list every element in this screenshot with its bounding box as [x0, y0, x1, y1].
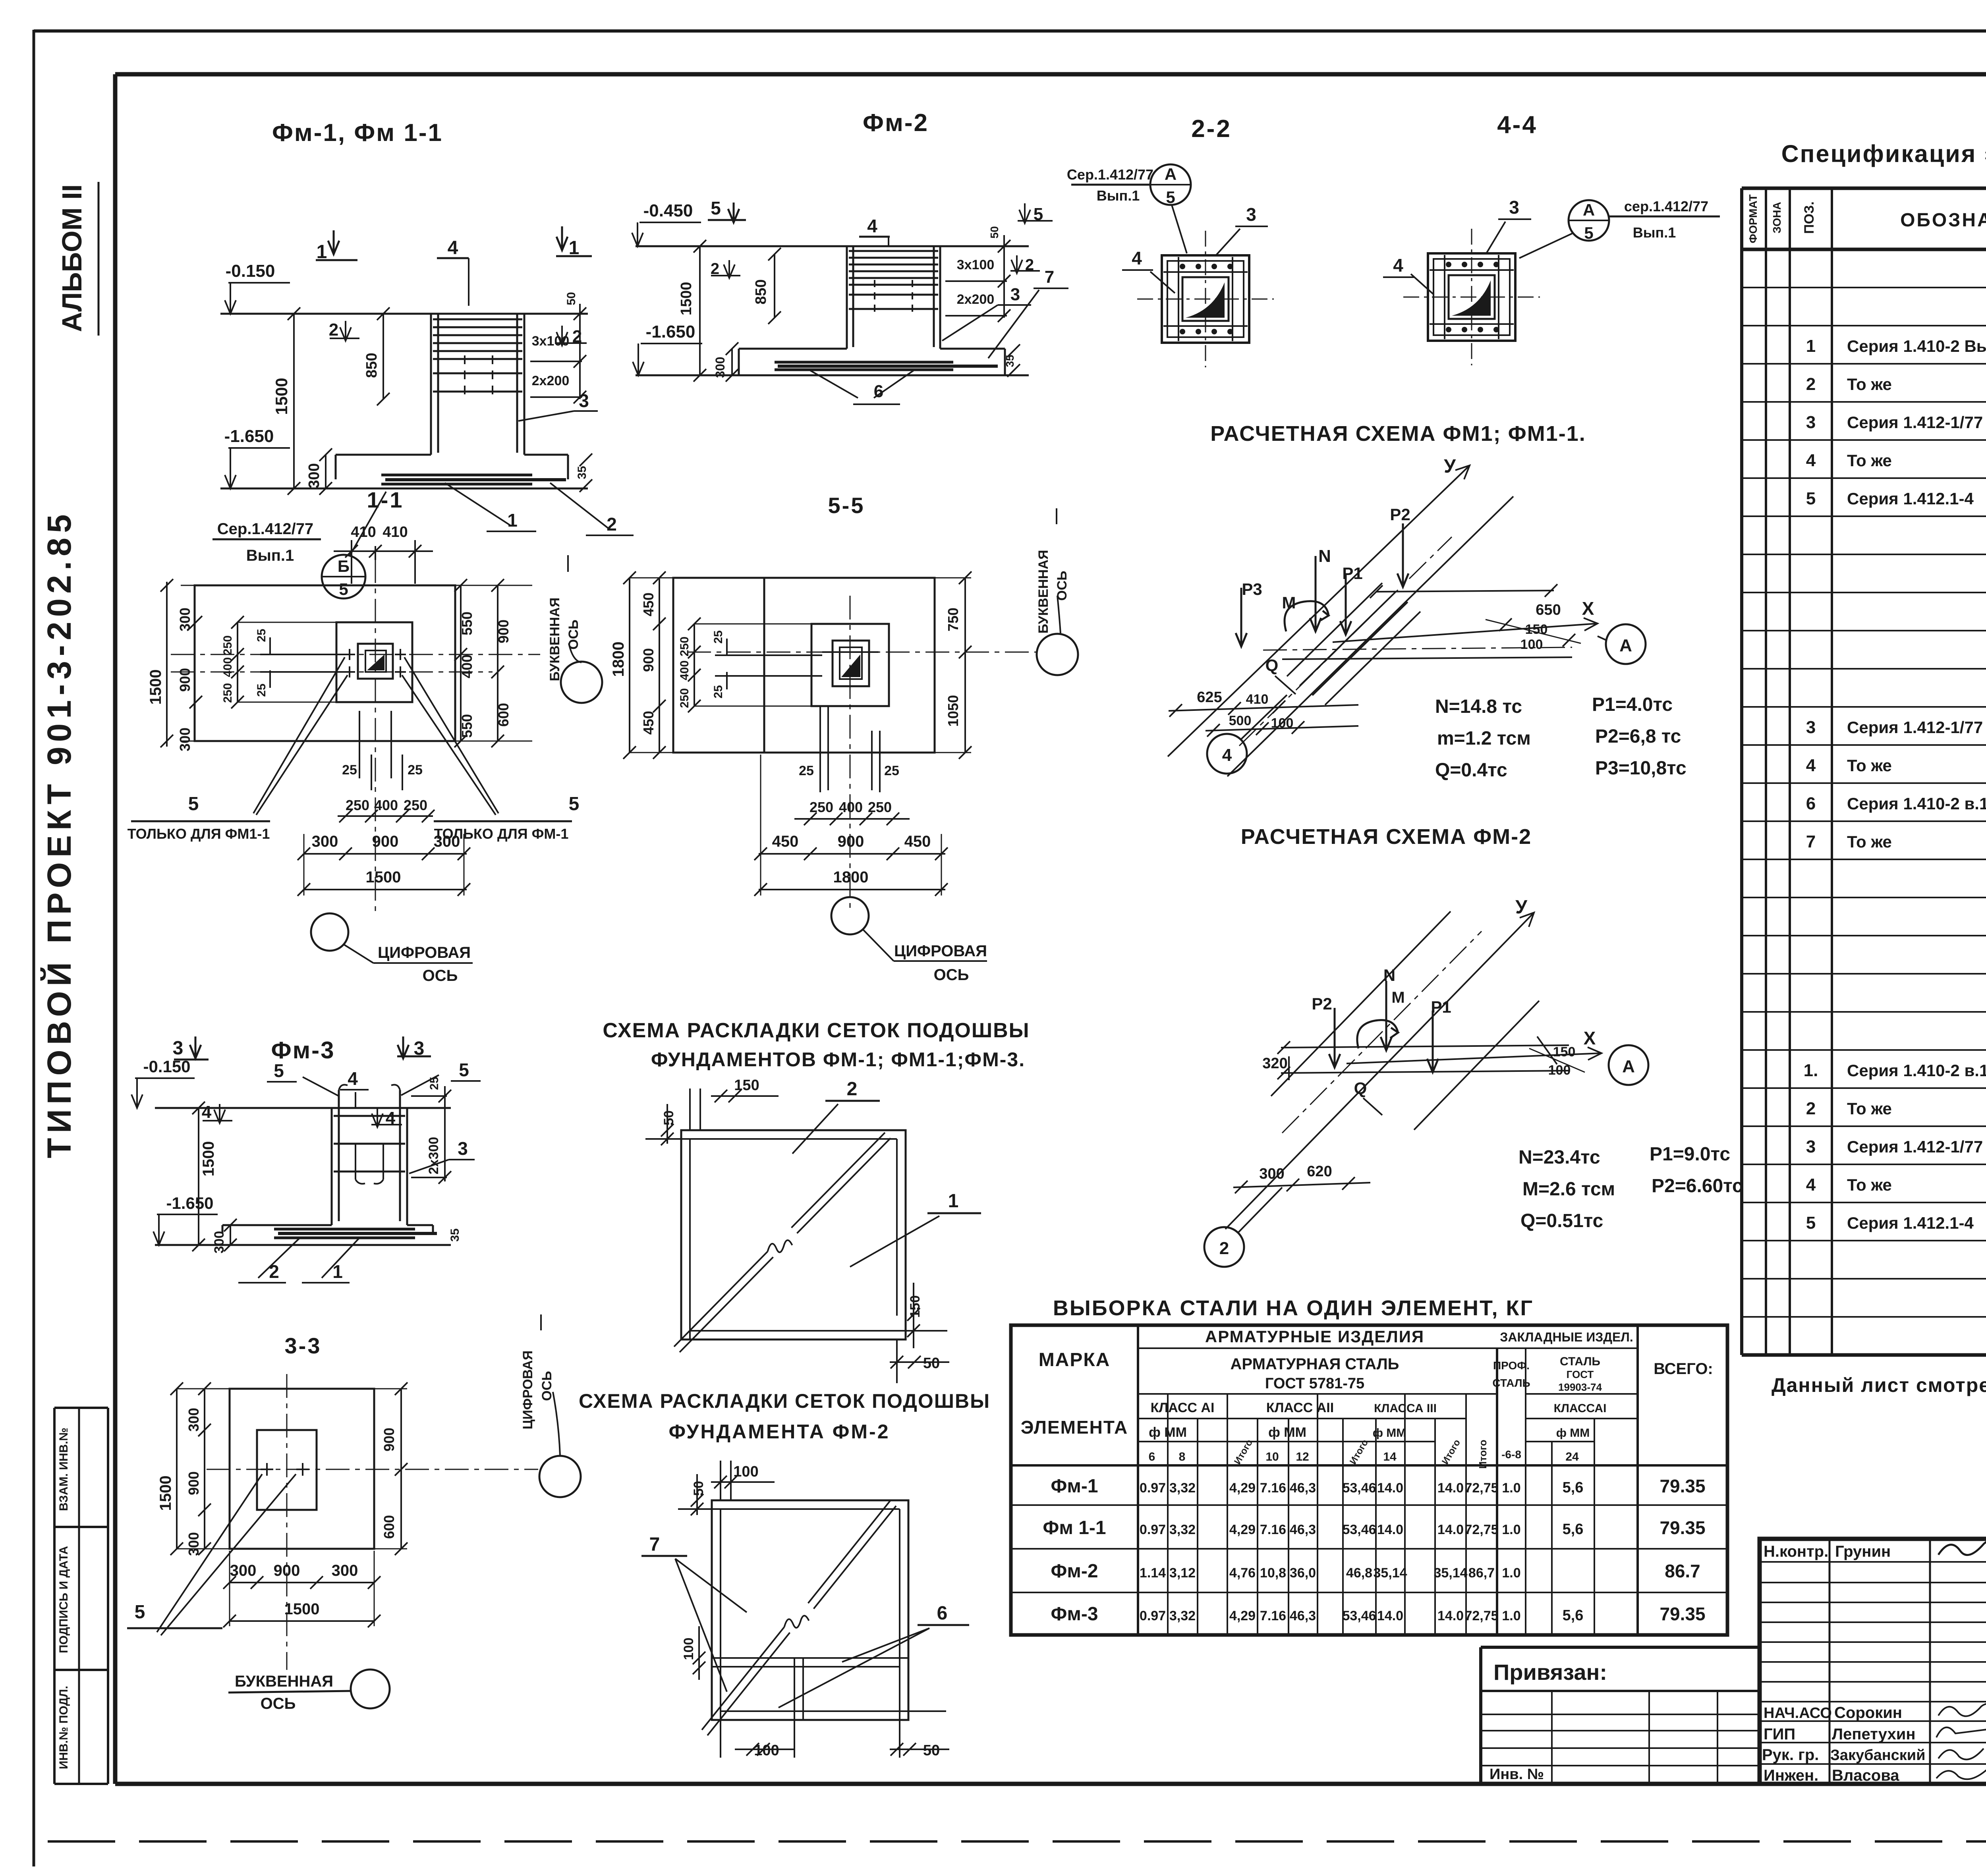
svg-text:Р2=6.60тс: Р2=6.60тс — [1652, 1175, 1743, 1197]
svg-text:0.97: 0.97 — [1140, 1522, 1166, 1537]
svg-text:4: 4 — [1806, 1175, 1816, 1195]
svg-text:14.0: 14.0 — [1437, 1608, 1464, 1623]
square section 2-2 — [1137, 231, 1274, 367]
svg-text:250: 250 — [868, 799, 892, 815]
svg-text:5: 5 — [711, 198, 721, 218]
svg-text:Х: Х — [1582, 598, 1594, 619]
steel table header — [1021, 1327, 1713, 1469]
svg-text:АЛЬБОМ II: АЛЬБОМ II — [56, 184, 87, 332]
svg-text:3,12: 3,12 — [1169, 1565, 1196, 1581]
svg-text:5: 5 — [569, 793, 580, 814]
svg-text:Инжен.: Инжен. — [1764, 1767, 1818, 1784]
svg-text:79.35: 79.35 — [1660, 1517, 1705, 1538]
svg-text:1800: 1800 — [610, 642, 627, 677]
calc2 forces — [1312, 966, 1451, 1115]
svg-text:3: 3 — [1509, 197, 1519, 218]
svg-text:Серия 1.412-1/77 в.3 стр.19: Серия 1.412-1/77 в.3 стр.19 — [1847, 718, 1986, 737]
svg-text:Серия 1.412-1/77 в.3 стр.19: Серия 1.412-1/77 в.3 стр.19 — [1847, 413, 1986, 432]
svg-text:Вып.1: Вып.1 — [246, 547, 294, 564]
svg-text:2: 2 — [1806, 1099, 1816, 1118]
sidebar cells — [54, 1408, 108, 1784]
svg-text:Р2: Р2 — [1390, 505, 1410, 524]
svg-text:19903-74: 19903-74 — [1558, 1381, 1602, 1393]
svg-text:900: 900 — [177, 668, 193, 692]
svg-text:1.0: 1.0 — [1502, 1608, 1520, 1623]
plan 3-3 digit axis — [520, 1314, 581, 1497]
plan 1-1 letter axis — [547, 555, 602, 703]
svg-text:1.14: 1.14 — [1140, 1565, 1166, 1581]
labels 4-4 — [1383, 197, 1531, 295]
svg-text:14.0: 14.0 — [1377, 1522, 1403, 1537]
svg-text:-1.650: -1.650 — [646, 322, 695, 342]
svg-text:5: 5 — [135, 1602, 145, 1623]
svg-text:100: 100 — [1520, 637, 1543, 652]
svg-text:Сер.1.412/77: Сер.1.412/77 — [217, 520, 313, 538]
svg-text:N: N — [1318, 546, 1331, 566]
svg-text:400: 400 — [678, 660, 691, 680]
spec table header — [1747, 194, 1986, 243]
svg-text:86.7: 86.7 — [1665, 1561, 1700, 1581]
svg-text:Власова: Власова — [1832, 1767, 1899, 1784]
svg-text:410: 410 — [351, 524, 376, 540]
svg-text:25: 25 — [712, 630, 725, 643]
svg-text:Инв. №: Инв. № — [1489, 1766, 1544, 1783]
title 4-4 — [1497, 111, 1538, 139]
scheme1 leaders — [792, 1079, 981, 1267]
section marks — [316, 226, 592, 346]
svg-text:4,29: 4,29 — [1229, 1608, 1256, 1623]
svg-text:1: 1 — [1806, 336, 1816, 356]
svg-text:14.0: 14.0 — [1377, 1608, 1403, 1623]
title 3-3 — [285, 1333, 322, 1358]
svg-text:50: 50 — [923, 1742, 940, 1759]
calc2 x axis — [1347, 1028, 1648, 1085]
svg-text:25: 25 — [799, 763, 814, 778]
svg-text:900: 900 — [495, 620, 512, 643]
svg-text:То же: То же — [1847, 375, 1892, 394]
svg-text:100: 100 — [733, 1463, 758, 1480]
svg-text:ТОЛЬКО ДЛЯ ФМ-1: ТОЛЬКО ДЛЯ ФМ-1 — [434, 826, 569, 842]
svg-text:2х300: 2х300 — [426, 1137, 441, 1175]
svg-text:4: 4 — [1222, 745, 1232, 765]
spec table title — [1781, 140, 1986, 167]
svg-text:-0.150: -0.150 — [226, 261, 275, 281]
svg-text:Р1=4.0тс: Р1=4.0тс — [1592, 694, 1673, 715]
svg-text:3: 3 — [173, 1038, 184, 1059]
svg-text:300: 300 — [1259, 1166, 1284, 1182]
svg-text:600: 600 — [381, 1515, 397, 1539]
section Fm-2 dims — [632, 201, 1020, 382]
svg-text:3,32: 3,32 — [1169, 1480, 1196, 1496]
svg-text:Сер.1.412/77: Сер.1.412/77 — [1067, 166, 1153, 183]
svg-text:250: 250 — [678, 688, 691, 708]
scheme1 dims — [661, 1077, 949, 1372]
svg-text:АРМАТУРНЫЕ ИЗДЕЛИЯ: АРМАТУРНЫЕ ИЗДЕЛИЯ — [1205, 1327, 1424, 1346]
svg-text:КЛАСС АI: КЛАСС АI — [1151, 1400, 1215, 1415]
svg-text:Лепетухин: Лепетухин — [1832, 1725, 1916, 1743]
svg-text:900: 900 — [381, 1428, 397, 1451]
svg-text:3: 3 — [1806, 1137, 1816, 1156]
svg-text:m=1.2 тсм: m=1.2 тсм — [1437, 728, 1531, 749]
svg-text:ВЫБОРКА СТАЛИ НА ОДИН ЭЛЕМЕНТ,: ВЫБОРКА СТАЛИ НА ОДИН ЭЛЕМЕНТ, КГ — [1053, 1296, 1534, 1320]
svg-text:1-1: 1-1 — [367, 487, 404, 512]
svg-text:1050: 1050 — [945, 695, 961, 727]
album label — [56, 182, 99, 336]
stamp grid — [1760, 1539, 1986, 1784]
svg-text:100: 100 — [681, 1638, 696, 1660]
svg-text:14.0: 14.0 — [1437, 1522, 1464, 1537]
plan 5-5 body — [673, 578, 1037, 913]
title Fm-2 — [863, 109, 929, 137]
svg-text:М: М — [1391, 989, 1404, 1006]
spec table rows — [1804, 259, 1986, 1309]
svg-text:4: 4 — [448, 237, 458, 259]
scheme2 title — [579, 1390, 990, 1443]
svg-text:250: 250 — [404, 797, 427, 813]
svg-text:450: 450 — [640, 711, 657, 735]
svg-text:50: 50 — [661, 1110, 676, 1125]
svg-text:3,32: 3,32 — [1169, 1608, 1196, 1623]
svg-text:250: 250 — [221, 635, 234, 655]
svg-text:150: 150 — [1553, 1044, 1576, 1060]
label inv — [57, 1686, 70, 1769]
svg-text:СХЕМА РАСКЛАДКИ СЕТОК ПОДОШВЫ: СХЕМА РАСКЛАДКИ СЕТОК ПОДОШВЫ — [603, 1019, 1030, 1042]
svg-text:1500: 1500 — [678, 282, 695, 316]
privyazan block — [1481, 1647, 1760, 1784]
svg-text:46,8: 46,8 — [1346, 1565, 1372, 1581]
svg-text:Рук. гр.: Рук. гр. — [1762, 1746, 1819, 1764]
svg-text:450: 450 — [904, 833, 931, 850]
svg-text:ВЗАМ. ИНВ.№: ВЗАМ. ИНВ.№ — [57, 1428, 70, 1511]
svg-text:Закубанский: Закубанский — [1830, 1747, 1926, 1764]
svg-text:СТАЛЬ: СТАЛЬ — [1560, 1355, 1600, 1368]
svg-text:ВСЕГО:: ВСЕГО: — [1654, 1360, 1713, 1378]
svg-text:ФУНДАМЕНТОВ ФМ-1; ФМ1-1;ФМ-3.: ФУНДАМЕНТОВ ФМ-1; ФМ1-1;ФМ-3. — [651, 1048, 1025, 1071]
svg-text:ОСЬ: ОСЬ — [566, 620, 581, 649]
scheme2 dims — [681, 1463, 949, 1759]
svg-text:ГОСТ: ГОСТ — [1567, 1368, 1594, 1380]
svg-text:6: 6 — [1806, 794, 1816, 813]
svg-text:850: 850 — [363, 353, 380, 378]
svg-text:А: А — [1165, 165, 1177, 183]
svg-text:14.0: 14.0 — [1377, 1480, 1403, 1496]
svg-text:2: 2 — [1219, 1239, 1229, 1258]
svg-text:250: 250 — [346, 797, 369, 813]
svg-text:2х200: 2х200 — [532, 373, 570, 388]
svg-text:50: 50 — [923, 1355, 940, 1372]
svg-text:7: 7 — [1045, 267, 1054, 287]
svg-text:300: 300 — [332, 1562, 358, 1579]
calc1 dims — [1169, 602, 1581, 737]
svg-text:У: У — [1444, 456, 1456, 477]
svg-text:14: 14 — [1383, 1450, 1397, 1463]
svg-text:РАСЧЕТНАЯ СХЕМА ФМ-2: РАСЧЕТНАЯ СХЕМА ФМ-2 — [1241, 825, 1532, 849]
svg-text:-1.650: -1.650 — [224, 427, 274, 446]
calc2 values — [1518, 1144, 1743, 1231]
svg-text:3: 3 — [458, 1138, 468, 1159]
svg-text:10: 10 — [1265, 1450, 1279, 1463]
svg-text:ф ММ: ф ММ — [1373, 1426, 1406, 1440]
svg-text:1500: 1500 — [272, 378, 291, 415]
svg-text:25: 25 — [342, 762, 357, 778]
title Fm-1 — [272, 119, 443, 147]
steel table title — [1053, 1296, 1534, 1320]
stamp left names — [1762, 1540, 1986, 1784]
svg-text:НАЧ.АСО: НАЧ.АСО — [1764, 1705, 1832, 1722]
svg-text:400: 400 — [839, 799, 863, 815]
svg-text:1.0: 1.0 — [1502, 1522, 1520, 1537]
calc1 axes — [1168, 456, 1572, 776]
calc1 values — [1435, 694, 1687, 781]
svg-text:4: 4 — [1806, 756, 1816, 775]
slab leaders — [445, 390, 634, 535]
svg-text:1800: 1800 — [833, 869, 869, 886]
svg-text:46,3: 46,3 — [1290, 1480, 1316, 1496]
svg-text:5,6: 5,6 — [1563, 1607, 1584, 1624]
svg-text:79.35: 79.35 — [1660, 1476, 1705, 1496]
svg-text:4: 4 — [348, 1068, 358, 1089]
svg-text:53,46: 53,46 — [1342, 1522, 1376, 1537]
calc2 dims — [1233, 1044, 1585, 1193]
svg-text:ФОРМАТ: ФОРМАТ — [1747, 194, 1759, 243]
svg-text:53,46: 53,46 — [1342, 1608, 1376, 1623]
svg-text:ПОДПИСЬ И ДАТА: ПОДПИСЬ И ДАТА — [57, 1546, 70, 1653]
svg-text:ЦИФРОВАЯ: ЦИФРОВАЯ — [378, 944, 471, 961]
calc1 axis circle 4 — [1207, 695, 1287, 774]
svg-text:КЛАССАI: КЛАССАI — [1554, 1402, 1607, 1415]
svg-text:4: 4 — [202, 1102, 212, 1122]
svg-text:300: 300 — [185, 1408, 202, 1432]
svg-text:Итого: Итого — [1477, 1440, 1489, 1469]
svg-text:4: 4 — [1132, 248, 1142, 268]
svg-text:450: 450 — [772, 833, 799, 850]
svg-text:ф ММ: ф ММ — [1149, 1425, 1187, 1440]
outer border bottom — [48, 1840, 1986, 1843]
svg-text:4-4: 4-4 — [1497, 111, 1538, 139]
svg-text:500: 500 — [1229, 713, 1252, 728]
scheme1 title — [603, 1019, 1030, 1071]
svg-text:550: 550 — [459, 612, 475, 635]
section marks Fm-2 — [708, 198, 1053, 278]
svg-text:А: А — [1622, 1057, 1635, 1076]
svg-text:Серия 1.410-2 в.1 стр.77: Серия 1.410-2 в.1 стр.77 — [1847, 1061, 1986, 1080]
svg-text:750: 750 — [945, 608, 961, 631]
svg-text:900: 900 — [185, 1471, 202, 1495]
section Fm-3 body — [155, 1085, 451, 1245]
svg-text:0.97: 0.97 — [1140, 1480, 1166, 1496]
svg-text:2-2: 2-2 — [1191, 115, 1232, 143]
section Fm-1 body — [220, 314, 588, 488]
plan 3-3 leaders — [127, 1474, 296, 1635]
svg-text:БУКВЕННАЯ: БУКВЕННАЯ — [547, 598, 562, 681]
svg-text:М: М — [1282, 593, 1296, 612]
svg-text:300: 300 — [713, 357, 727, 378]
plan 5-5 dims — [610, 571, 972, 759]
svg-text:ТИПОВОЙ ПРОЕКТ 901-3-202.85: ТИПОВОЙ ПРОЕКТ 901-3-202.85 — [41, 510, 78, 1158]
svg-text:250: 250 — [221, 683, 234, 703]
steel table grid — [1011, 1325, 1727, 1635]
svg-text:900: 900 — [838, 833, 864, 850]
svg-text:Фм-3: Фм-3 — [271, 1037, 335, 1063]
svg-text:КЛАССА III: КЛАССА III — [1374, 1402, 1437, 1415]
svg-text:Р3: Р3 — [1242, 580, 1262, 598]
svg-text:7: 7 — [1806, 832, 1816, 851]
svg-text:7.16: 7.16 — [1260, 1608, 1286, 1623]
svg-text:То же: То же — [1847, 832, 1892, 851]
section Fm-3 dims — [131, 1057, 462, 1253]
svg-text:625: 625 — [1197, 689, 1222, 706]
svg-text:300: 300 — [306, 463, 323, 488]
svg-text:400: 400 — [374, 797, 398, 813]
svg-text:СХЕМА РАСКЛАДКИ СЕТОК ПОДОШВЫ: СХЕМА РАСКЛАДКИ СЕТОК ПОДОШВЫ — [579, 1390, 990, 1412]
svg-text:Q=0.4тс: Q=0.4тс — [1435, 760, 1507, 781]
svg-text:сер.1.412/77: сер.1.412/77 — [1624, 198, 1708, 214]
svg-text:1500: 1500 — [284, 1600, 320, 1618]
svg-text:ЗОНА: ЗОНА — [1771, 202, 1783, 233]
svg-text:50: 50 — [988, 226, 1001, 238]
title 5-5 — [828, 493, 865, 518]
svg-text:50: 50 — [691, 1481, 706, 1496]
svg-text:72,75: 72,75 — [1464, 1608, 1498, 1623]
svg-text:Данный лист смотреть совмес: Данный лист смотреть совместно с листом … — [1772, 1374, 1986, 1396]
svg-text:7: 7 — [649, 1534, 660, 1555]
svg-text:2: 2 — [269, 1261, 279, 1282]
svg-text:4: 4 — [1806, 451, 1816, 470]
svg-text:24: 24 — [1565, 1450, 1579, 1463]
svg-text:1.: 1. — [1804, 1061, 1818, 1080]
svg-text:35: 35 — [448, 1228, 462, 1241]
svg-text:1: 1 — [332, 1261, 343, 1282]
note text — [1772, 1374, 1986, 1396]
svg-text:35,14: 35,14 — [1433, 1565, 1467, 1581]
series ref Fm-1 — [213, 492, 386, 598]
svg-text:СТАЛЬ: СТАЛЬ — [1492, 1377, 1530, 1389]
svg-text:То же: То же — [1847, 1099, 1892, 1118]
svg-text:46,3: 46,3 — [1290, 1608, 1316, 1623]
svg-text:1.0: 1.0 — [1502, 1565, 1520, 1581]
svg-text:3х100: 3х100 — [957, 257, 995, 272]
svg-text:N: N — [1383, 966, 1395, 984]
title 1-1 — [367, 487, 404, 512]
svg-text:ф ММ: ф ММ — [1268, 1425, 1306, 1440]
steel table rows — [1043, 1476, 1705, 1625]
svg-text:0.97: 0.97 — [1140, 1608, 1166, 1623]
svg-text:600: 600 — [495, 703, 512, 727]
svg-text:-1.650: -1.650 — [166, 1194, 213, 1212]
svg-text:У: У — [1515, 897, 1528, 918]
svg-text:650: 650 — [1536, 602, 1561, 618]
svg-text:Q: Q — [1354, 1079, 1367, 1098]
svg-text:5: 5 — [1584, 224, 1593, 242]
svg-text:ОСЬ: ОСЬ — [934, 966, 969, 984]
svg-text:300: 300 — [185, 1532, 202, 1556]
svg-text:1: 1 — [507, 510, 518, 531]
svg-text:Серия 1.412.1-4: Серия 1.412.1-4 — [1847, 489, 1974, 508]
svg-text:6: 6 — [1149, 1450, 1155, 1463]
svg-text:Фм 1-1: Фм 1-1 — [1043, 1517, 1106, 1538]
svg-text:То же: То же — [1847, 1175, 1892, 1194]
svg-text:35: 35 — [576, 466, 589, 479]
svg-text:АРМАТУРНАЯ СТАЛЬ: АРМАТУРНАЯ СТАЛЬ — [1231, 1355, 1399, 1373]
svg-text:4,76: 4,76 — [1229, 1565, 1256, 1581]
svg-text:300: 300 — [177, 728, 193, 751]
svg-text:150: 150 — [734, 1077, 759, 1094]
svg-text:Вып.1: Вып.1 — [1633, 224, 1676, 241]
svg-text:Серия 1.410-2 Вып.1 стр.77: Серия 1.410-2 Вып.1 стр.77 — [1847, 337, 1986, 355]
scheme1 grid — [645, 1089, 947, 1383]
svg-text:3: 3 — [1806, 413, 1816, 432]
title Fm-3 — [271, 1037, 335, 1063]
leaders Fm-3 — [238, 1060, 481, 1283]
svg-text:Р2=6,8 тс: Р2=6,8 тс — [1595, 726, 1681, 747]
svg-text:Q: Q — [1265, 656, 1279, 675]
svg-text:3-3: 3-3 — [285, 1333, 322, 1358]
svg-text:5: 5 — [274, 1060, 284, 1081]
svg-text:5,6: 5,6 — [1563, 1521, 1584, 1538]
svg-text:ОСЬ: ОСЬ — [539, 1371, 554, 1401]
svg-text:3: 3 — [1806, 718, 1816, 737]
svg-text:Привязан:: Привязан: — [1493, 1660, 1607, 1685]
svg-text:Б: Б — [338, 557, 350, 575]
svg-text:ф ММ: ф ММ — [1556, 1426, 1590, 1440]
series ref 4-4 — [1519, 198, 1720, 258]
svg-text:5,6: 5,6 — [1563, 1479, 1584, 1496]
svg-text:5-5: 5-5 — [828, 493, 865, 518]
svg-text:-6-8: -6-8 — [1501, 1448, 1521, 1461]
svg-text:3: 3 — [579, 390, 589, 411]
svg-text:150: 150 — [908, 1295, 923, 1318]
svg-text:250: 250 — [809, 799, 833, 815]
svg-text:900: 900 — [640, 648, 657, 672]
svg-text:Серия 1.412.1-4: Серия 1.412.1-4 — [1847, 1214, 1974, 1232]
plan 3-3 letter axis — [228, 1669, 390, 1712]
svg-text:ГОСТ 5781-75: ГОСТ 5781-75 — [1265, 1375, 1364, 1392]
svg-text:БУКВЕННАЯ: БУКВЕННАЯ — [235, 1673, 333, 1690]
svg-text:То же: То же — [1847, 756, 1892, 775]
plan 1-1 digit axis — [311, 913, 473, 984]
calc2 title — [1241, 825, 1532, 849]
svg-text:36,0: 36,0 — [1290, 1565, 1316, 1581]
svg-text:450: 450 — [640, 593, 657, 616]
svg-text:Р1: Р1 — [1431, 998, 1451, 1016]
svg-text:2х200: 2х200 — [957, 292, 995, 307]
svg-text:14.0: 14.0 — [1437, 1480, 1464, 1496]
svg-text:25: 25 — [408, 762, 423, 778]
outer border left — [33, 30, 35, 1866]
svg-text:620: 620 — [1307, 1163, 1332, 1180]
svg-text:6: 6 — [937, 1603, 948, 1624]
svg-text:25: 25 — [255, 629, 268, 642]
calc1 title — [1210, 422, 1586, 446]
svg-text:А: А — [1583, 201, 1595, 219]
plan 1-1 dims — [147, 524, 532, 751]
svg-text:5: 5 — [1806, 489, 1816, 508]
svg-text:900: 900 — [274, 1562, 300, 1579]
svg-text:35,14: 35,14 — [1373, 1565, 1407, 1581]
section Fm-1 dims — [224, 261, 592, 495]
svg-text:Спецификация элементов монол: Спецификация элементов монолитных констр… — [1781, 140, 1986, 167]
svg-text:3,32: 3,32 — [1169, 1522, 1196, 1537]
svg-text:4,29: 4,29 — [1229, 1522, 1256, 1537]
label podpis — [57, 1546, 70, 1653]
plan 5-5 bottom dims — [754, 755, 948, 896]
label vzam — [57, 1428, 70, 1511]
svg-text:М=2.6 тсм: М=2.6 тсм — [1522, 1179, 1615, 1200]
plan 3-3 dims — [157, 1382, 408, 1627]
svg-text:КЛАСС АII: КЛАСС АII — [1266, 1400, 1334, 1415]
svg-text:Р3=10,8тс: Р3=10,8тс — [1595, 758, 1687, 779]
svg-text:2: 2 — [847, 1079, 858, 1100]
